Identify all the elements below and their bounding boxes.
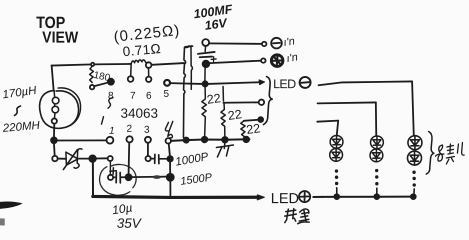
node: zener anode terminal circle (52, 156, 57, 161)
wire: zener junction to cap 10u (96, 157, 108, 159)
wire: pin2 drop to 10u cap (128, 142, 131, 174)
capacitor C-10u terminal circle (108, 175, 113, 180)
arrowhead LED+ (257, 195, 264, 200)
arrowhead line3 (259, 80, 265, 85)
LED D11 (330, 135, 343, 148)
wire: terminal line 1 (minus in) (185, 43, 262, 47)
wire: column 1 drop (337, 121, 338, 136)
capacitor C-10u outline circle (100, 164, 137, 195)
wire: toroid to bottom junction (53, 124, 55, 138)
node: pin6 circle (146, 77, 151, 82)
node: line4 end circle (259, 100, 264, 105)
IC U1 pin number labels top (108, 89, 170, 102)
resistor R1 22: stub + zigzag (202, 86, 207, 137)
inductor L1 winding loops (54, 91, 55, 119)
terminal symbol minus-in (271, 38, 282, 49)
label in (2) (286, 51, 299, 65)
label in (1) (283, 35, 296, 49)
svg-text:ı'n: ı'n (283, 35, 296, 49)
capacitor C-10u plus sign (110, 168, 117, 175)
capacitor C1 plus (211, 57, 216, 62)
svg-text:2: 2 (126, 124, 132, 135)
node: line1 end circle (262, 42, 266, 46)
node: pin8 dot (108, 79, 114, 85)
capacitor C1 plates (198, 52, 215, 57)
capacitor C1 100MF: top terminal circle (202, 39, 209, 46)
svg-text:10µ: 10µ (111, 201, 133, 218)
svg-text:7: 7 (130, 91, 136, 102)
svg-text:LED: LED (273, 77, 296, 91)
node: junction dot A (51, 137, 57, 143)
wire: zener junction down to LED+ rail (92, 162, 94, 196)
wire: terminal line 2 (plus in) (209, 61, 261, 64)
node: rail dot col2 (374, 194, 379, 199)
node: small circle before 10u cap (108, 156, 113, 161)
label kanji kyoutsuu (common) (285, 209, 310, 224)
dots column 1 (335, 169, 339, 185)
wire: column 2 tail (376, 188, 378, 196)
terminal symbol plus-in (271, 55, 283, 67)
title TOP VIEW (36, 14, 79, 47)
svg-text:22: 22 (245, 121, 261, 137)
label LED+ (271, 191, 299, 207)
svg-text:3: 3 (144, 125, 150, 136)
pin4 label glyph (165, 121, 172, 138)
wire: pin6 riser (148, 68, 150, 77)
svg-text:35V: 35V (117, 216, 143, 231)
LED D12 (330, 148, 343, 161)
wire: pin4 drop through junctions to bottom rail (169, 144, 171, 196)
stray mark near pin1 (101, 117, 103, 125)
wire: LED- feed to column 3 (319, 81, 412, 85)
node: R-180 bottom loop (90, 85, 94, 89)
node: line5 end dot (258, 117, 263, 122)
node: C1 bottom blob (203, 61, 210, 68)
wire: C1 blob down to line3 (204, 67, 206, 81)
label 100MF 16V for capacitor C1 (193, 2, 234, 33)
node: line2 end circle (261, 58, 265, 62)
node: 1000p left circle (145, 156, 150, 161)
label LED- (273, 77, 296, 91)
wire: column 2 drop (375, 102, 378, 135)
bus wire vertical 2 (191, 46, 193, 90)
IC U1 pin number labels bottom (109, 124, 150, 137)
svg-text:ı'n: ı'n (286, 51, 299, 65)
node: toroid lower terminal circle (52, 118, 57, 123)
svg-text:6: 6 (146, 91, 152, 102)
svg-text:22: 22 (227, 107, 243, 123)
wire: pin4 to resistor rail (171, 139, 250, 141)
pin8 brace mark (108, 98, 113, 109)
terminal symbol plus (LED+) (299, 191, 310, 202)
LED D32 (407, 151, 421, 165)
wire: junction A down to zener (53, 143, 56, 156)
LED D21 (371, 136, 384, 149)
wire: column 1 tail (336, 188, 338, 196)
node: rail dot at bus (184, 137, 189, 142)
paper smudge bottom left (0, 201, 23, 209)
wire: branch from line3 down to line4 (222, 86, 224, 101)
blob on wire (153, 175, 161, 179)
capacitor C-1000p (151, 154, 168, 163)
brace for LED- group (263, 77, 272, 125)
wire: C1 top stub (204, 46, 206, 51)
resistor R-sense 0.71 ohm coil bumps (131, 60, 147, 64)
wire: pin3 drop to 1000p (147, 143, 149, 156)
node: rail dot r1 (202, 137, 208, 143)
label 170uH (2, 85, 38, 102)
bus wire vertical 1 (183, 46, 189, 138)
wire: column 3 drop (412, 81, 414, 135)
node: line3 junction dot (202, 81, 207, 86)
wire: LED+ rail under columns (313, 196, 322, 198)
wire: column 3 tail (413, 189, 415, 196)
svg-text:LED: LED (271, 191, 299, 207)
wire: 10u junction to 1500p junction (131, 176, 166, 179)
svg-text:34063: 34063 (120, 106, 158, 121)
terminal symbol minus (LED-) (300, 77, 311, 88)
wire: LED- feed to column 2 (318, 102, 376, 103)
node: junction circle at 180 resistor tap (91, 63, 94, 66)
wire: top rail from coil to bus (151, 63, 184, 65)
node: pin5 ring (164, 80, 170, 86)
resistor R2 22 (221, 103, 225, 137)
node: zener cathode junction dot (89, 155, 96, 162)
wire: junction A to pin1 (57, 139, 107, 141)
wire: line3 from pin5 to LED- arrow (170, 82, 202, 85)
LED D22 (370, 149, 383, 162)
svg-text:1: 1 (109, 126, 115, 137)
node: 10u cap right junction dot (126, 174, 132, 180)
node: rail dot col3 (411, 194, 416, 199)
node: coil right terminal circle (146, 62, 152, 68)
svg-text:5: 5 (164, 89, 170, 100)
node: rail dot col1 (334, 194, 339, 199)
node: pin4 circle (166, 138, 171, 143)
dots column 3 (412, 171, 416, 187)
capacitor C-10u plates (113, 172, 126, 183)
node: 1500p junction big dot (167, 174, 174, 181)
node: pin1 circle (107, 137, 114, 144)
dots column 2 (375, 169, 379, 186)
label 8-series kanji (435, 142, 464, 164)
thick bottom rail to LED+ (93, 196, 258, 197)
resistor R3 22 (241, 121, 245, 138)
label 10u 35V (111, 200, 143, 230)
wire: left vertical into toroid (52, 66, 54, 90)
inductor L1 toroid outline (40, 91, 79, 129)
wire: down into 10u cap (109, 161, 111, 174)
LED D31 (408, 136, 422, 150)
wire: LED- feed to column 1 (317, 121, 338, 122)
resistor R-180 zigzag (90, 66, 94, 83)
node: pin3 circle (145, 137, 151, 143)
node: pin7 circle (128, 76, 134, 82)
node: rail dot r3 (243, 137, 249, 143)
diode D1 zener (58, 149, 90, 170)
wire: line4 (223, 101, 258, 104)
node: 1000p right junction dot (167, 156, 172, 161)
svg-text:22: 22 (206, 91, 222, 107)
ground symbol pi (216, 141, 233, 157)
node: rail dot r2 (222, 137, 228, 143)
brace 8-series (426, 131, 434, 174)
wire: R-180 to pin 8 (94, 83, 107, 87)
wire: top rail from left corner to coil (52, 64, 131, 66)
node: pin2 circle (126, 136, 132, 142)
svg-text:VIEW: VIEW (42, 30, 79, 47)
wire: pin7 riser (130, 64, 132, 76)
wire: line5 stub (244, 120, 259, 121)
